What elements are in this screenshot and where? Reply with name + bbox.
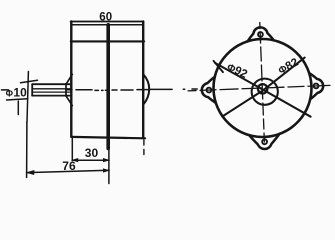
svg-text:Φ10: Φ10 bbox=[6, 85, 27, 99]
centerline: horizontal shaft axis (side view), dash-dot bbox=[2, 89, 198, 90]
extension line from flange for dims 30/76 bbox=[108, 149, 110, 184]
motor body right edge, side view bbox=[142, 22, 144, 138]
motor body bottom edge, side view bbox=[71, 137, 145, 138]
flange ear bump, side view right bbox=[143, 74, 149, 104]
dim phi82 tick mark bbox=[300, 55, 305, 63]
dim phi92 tick mark bbox=[214, 61, 223, 73]
shaft flare cone to body bbox=[66, 74, 72, 105]
ear right bolt hole bbox=[314, 83, 319, 88]
dimension line 30 bbox=[72, 159, 109, 161]
body top cover edge bbox=[73, 24, 142, 26]
ear bottom bolt hole bbox=[262, 139, 267, 144]
ear left lobe bbox=[201, 77, 216, 104]
dimension value labels bbox=[6, 12, 301, 173]
shaft outline (phi 10) bbox=[32, 84, 71, 96]
front view group (slightly rotated as in scan) bbox=[186, 20, 333, 152]
dimension line 76 bbox=[27, 170, 109, 172]
svg-text:76: 76 bbox=[62, 159, 76, 173]
centerline: horizontal axis front view, dashed bbox=[188, 85, 330, 90]
svg-text:30: 30 bbox=[85, 146, 99, 160]
svg-text:Φ82: Φ82 bbox=[276, 56, 300, 76]
shaft hub circle bbox=[258, 84, 268, 94]
inner boss circle bbox=[251, 78, 278, 105]
mounting flange plate, edge-on (thick line) bbox=[106, 25, 110, 149]
hidden edge dashes below body bbox=[143, 140, 145, 155]
svg-text:60: 60 bbox=[99, 12, 112, 24]
extension line for dim 30 (from body left edge) bbox=[71, 139, 73, 161]
mounting ears bbox=[200, 25, 326, 151]
arrowhead dim 76 right bbox=[103, 169, 108, 172]
motor body left edge, side view bbox=[70, 22, 72, 137]
ear top bolt hole bbox=[258, 32, 263, 37]
ear left bolt hole bbox=[206, 88, 211, 93]
motor outer circle, front view bbox=[212, 37, 314, 139]
arrowhead dim 30 left bbox=[72, 159, 77, 162]
ear bottom lobe bbox=[249, 134, 280, 150]
arrowhead dim 30 right bbox=[103, 159, 108, 162]
radial leader lines (spokes) bbox=[215, 57, 311, 120]
centerline: vertical axis front view, dashed bbox=[260, 23, 265, 142]
svg-text:Φ92: Φ92 bbox=[225, 61, 249, 81]
extension line for dim 76 (from shaft tip) bbox=[26, 122, 28, 178]
arrowhead dim 76 left bbox=[27, 171, 34, 175]
shaft inner lines bbox=[32, 89, 71, 92]
body seam line bbox=[71, 40, 144, 42]
ear top lobe bbox=[247, 27, 274, 42]
dimension phi10: vertical line with tick terminators bbox=[7, 72, 38, 123]
ear right lobe bbox=[309, 73, 324, 100]
dimension line 60 (top width) bbox=[71, 21, 144, 23]
